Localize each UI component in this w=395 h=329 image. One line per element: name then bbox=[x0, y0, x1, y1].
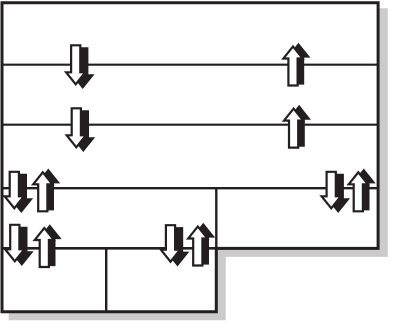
vertical divider left-bottom (x=106) bbox=[105, 248, 107, 311]
horizontal divider line 4 bbox=[2, 247, 378, 250]
up arrow band4 left bbox=[35, 226, 60, 267]
up arrow band4 middle bbox=[188, 225, 213, 266]
vertical divider right (x=216) bbox=[215, 187, 217, 312]
up arrow band3 right bbox=[349, 170, 374, 211]
up arrow band2 bbox=[284, 107, 309, 148]
down arrow band3 left bbox=[5, 172, 31, 212]
down arrow band3 right bbox=[322, 172, 348, 212]
horizontal divider line 3 bbox=[2, 187, 378, 189]
horizontal divider line 2 bbox=[2, 124, 378, 126]
up arrow band1 bbox=[283, 45, 308, 86]
down arrow band2 bbox=[67, 108, 93, 150]
down arrow band1 bbox=[66, 45, 92, 87]
horizontal divider line 1 bbox=[2, 64, 378, 66]
down arrow band4 left bbox=[5, 225, 31, 264]
down arrow band4 middle bbox=[161, 225, 187, 265]
up arrow band3 left bbox=[33, 170, 58, 211]
